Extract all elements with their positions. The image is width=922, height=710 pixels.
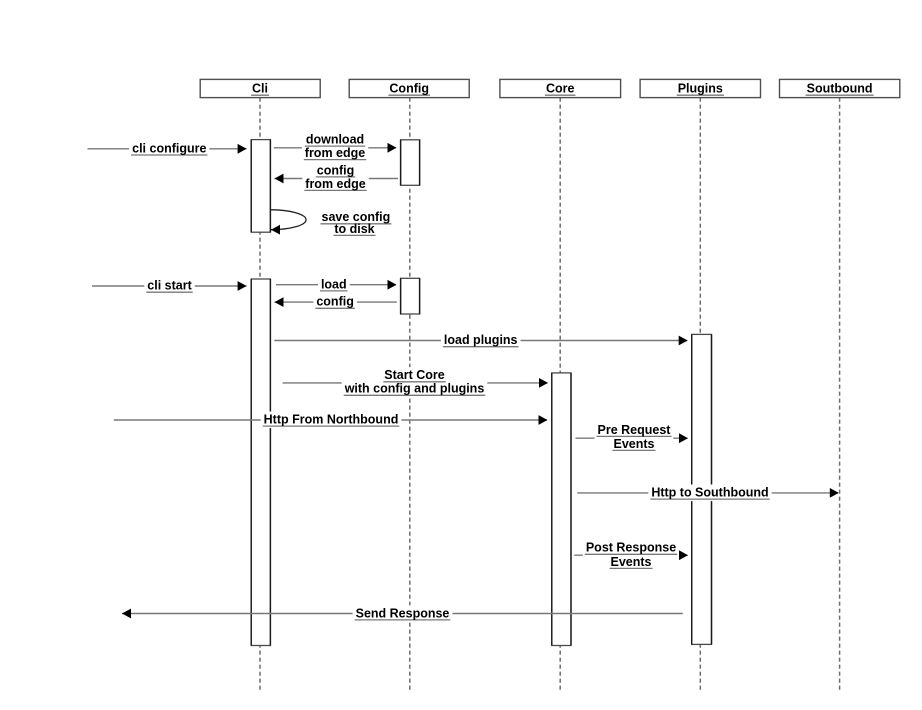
svg-text:Events: Events bbox=[614, 437, 655, 451]
message "cli start" bbox=[92, 278, 247, 295]
activation Cli bar 2 bbox=[251, 279, 270, 646]
message "download from edge" bbox=[274, 132, 397, 162]
svg-text:with config and plugins: with config and plugins bbox=[344, 382, 485, 396]
svg-text:Http From Northbound: Http From Northbound bbox=[264, 413, 399, 427]
message "config" bbox=[275, 294, 397, 311]
svg-text:config: config bbox=[316, 295, 354, 309]
message "Start Core with config and plugins" bbox=[283, 367, 548, 397]
svg-text:cli start: cli start bbox=[147, 279, 192, 293]
message "load plugins" bbox=[274, 332, 687, 349]
actor Plugins bbox=[640, 79, 760, 97]
svg-text:from edge: from edge bbox=[305, 146, 365, 160]
activation Config bar 1 bbox=[401, 140, 420, 186]
actor Core bbox=[500, 79, 621, 97]
message "cli configure" bbox=[88, 140, 247, 157]
self-message "save config to disk" bbox=[271, 210, 392, 236]
actor Soutbound bbox=[780, 79, 900, 97]
svg-text:Http to Southbound: Http to Southbound bbox=[651, 486, 768, 500]
lifeline Config bbox=[409, 98, 411, 693]
message "config from edge" bbox=[275, 162, 399, 192]
activation Config bar 2 bbox=[401, 278, 420, 314]
activation Cli bar 1 bbox=[251, 140, 270, 233]
message "Send Response" bbox=[122, 605, 683, 622]
svg-text:Cli: Cli bbox=[252, 82, 268, 96]
activation Plugins bar bbox=[692, 334, 712, 644]
message "load" bbox=[276, 276, 397, 293]
message "Http From Northbound" bbox=[114, 412, 548, 429]
svg-text:Send Response: Send Response bbox=[356, 606, 450, 620]
svg-text:to disk: to disk bbox=[334, 222, 374, 236]
svg-text:load: load bbox=[321, 277, 347, 291]
lifeline Core bbox=[559, 98, 561, 693]
svg-text:from edge: from edge bbox=[305, 177, 365, 191]
svg-text:Config: Config bbox=[389, 82, 429, 96]
actor Cli bbox=[200, 79, 320, 97]
svg-text:Pre Request: Pre Request bbox=[598, 423, 672, 437]
svg-text:download: download bbox=[306, 133, 364, 147]
actor Config bbox=[349, 79, 469, 97]
svg-text:Plugins: Plugins bbox=[678, 82, 723, 96]
activation Core bar bbox=[552, 373, 571, 646]
lifeline Soutbound bbox=[839, 98, 841, 693]
svg-text:Core: Core bbox=[546, 82, 575, 96]
message "Http to Southbound" bbox=[577, 485, 839, 502]
svg-text:Events: Events bbox=[611, 555, 652, 569]
svg-text:Post Response: Post Response bbox=[586, 541, 676, 555]
svg-text:config: config bbox=[317, 163, 355, 177]
lifeline Plugins bbox=[699, 98, 701, 693]
svg-text:Start Core: Start Core bbox=[384, 368, 444, 382]
message "Post Response Events" bbox=[574, 540, 688, 571]
svg-text:load plugins: load plugins bbox=[444, 333, 518, 347]
message "Pre Request Events" bbox=[576, 422, 689, 453]
svg-text:Soutbound: Soutbound bbox=[807, 82, 873, 96]
svg-text:cli configure: cli configure bbox=[132, 141, 206, 155]
lifeline Cli bbox=[259, 98, 261, 693]
